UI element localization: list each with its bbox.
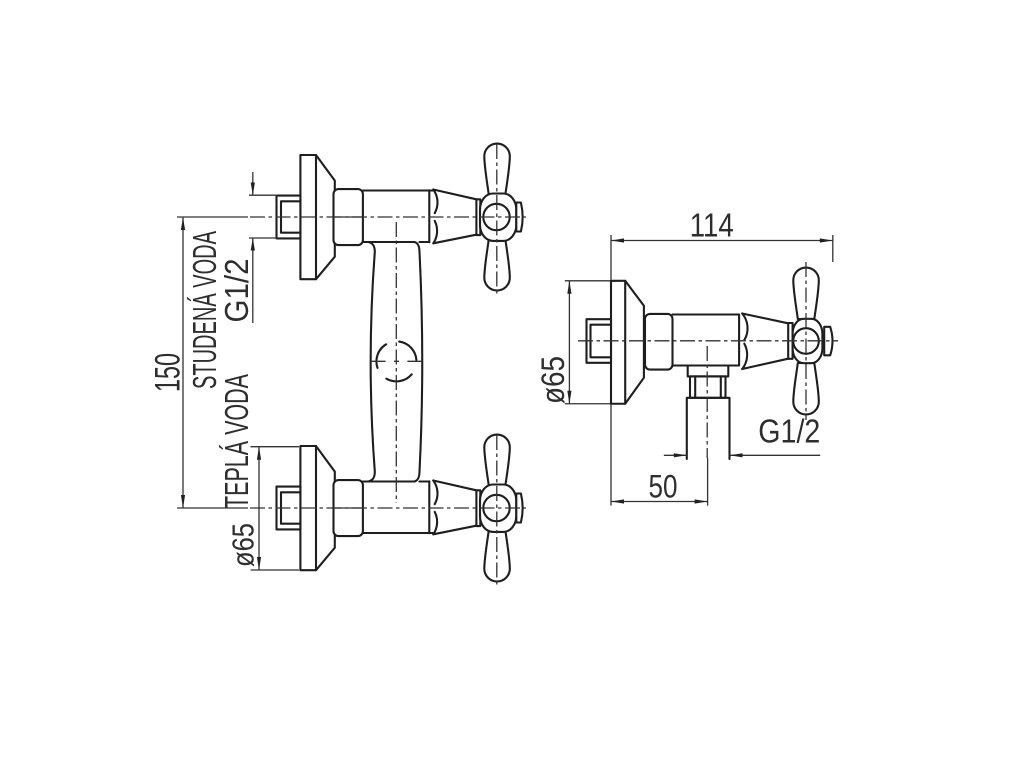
top valve group — [277, 144, 523, 291]
body circle horizontal centerline — [371, 360, 423, 362]
centerline top valve axis — [250, 216, 526, 218]
centerline solid across bottom nut — [334, 507, 364, 509]
svg-text:150: 150 — [149, 353, 188, 392]
hub cap side — [824, 327, 832, 356]
dimension 114 arrow right — [820, 238, 833, 242]
dimension dia65 arrow up — [257, 447, 261, 460]
handle blade up — [484, 144, 510, 195]
wall thread side — [587, 319, 612, 363]
outlet hex — [690, 376, 726, 397]
escutcheon flange — [300, 155, 334, 279]
dimension G1/2 side arrow right — [730, 453, 743, 457]
outlet pipe — [687, 398, 730, 459]
outlet hex chamfer lines — [695, 376, 721, 397]
svg-text:ø65: ø65 — [226, 523, 261, 567]
dimension 114 line — [611, 240, 833, 242]
dimension dia65 line — [258, 447, 260, 570]
dimension G1/2 arrow down — [251, 183, 255, 196]
dimension G1/2 side lines — [664, 454, 820, 456]
bonnet cone — [433, 190, 476, 244]
body tube left edge — [368, 242, 375, 482]
dimension dia65 arrow down — [257, 557, 261, 570]
dimension G1/2 arrow up — [251, 238, 255, 251]
bonnet collar side — [788, 323, 792, 359]
dimension 114 arrow left — [611, 238, 624, 242]
bonnet collar — [476, 199, 480, 235]
body tube right edge — [415, 242, 423, 482]
RIGHT VIEW — [535, 207, 838, 506]
thread core lines side — [591, 325, 612, 358]
svg-text:G1/2: G1/2 — [758, 413, 820, 450]
dimension dia65 side arrow up — [567, 281, 571, 294]
bottom valve arm edges — [363, 482, 433, 534]
bottom valve group — [277, 435, 523, 582]
centerline valve axis side — [578, 340, 838, 342]
dimension 50 arrow left — [611, 499, 624, 503]
dimension 114 extension line — [832, 235, 834, 262]
bonnet face edge — [428, 190, 430, 242]
wall mounting line — [610, 235, 612, 506]
dimension 150 line — [182, 217, 184, 508]
dimension 150 arrow down — [181, 495, 185, 508]
top valve arm edges — [363, 191, 433, 243]
valve body side — [673, 315, 740, 366]
svg-text:ø65: ø65 — [535, 356, 571, 404]
handle blade down — [484, 239, 510, 290]
dimension dia65 extension lines — [251, 447, 300, 570]
centerline bottom handle axis — [496, 435, 498, 588]
body center boss circle — [376, 342, 416, 382]
bonnet face edge side — [738, 315, 740, 365]
thread core lines — [281, 201, 300, 232]
svg-text:50: 50 — [649, 468, 678, 504]
dimension 150 extension lines — [177, 217, 248, 508]
dimension dia65 side extension lines — [565, 281, 610, 404]
dimension G1/2 side arrow left — [674, 453, 687, 457]
centerline handle axis side — [805, 262, 807, 420]
bonnet cone side — [742, 314, 788, 370]
centerline bottom valve axis — [250, 507, 526, 509]
svg-text:G1/2: G1/2 — [218, 259, 255, 323]
hub cap — [516, 203, 522, 232]
dimension dia65 side arrow down — [567, 391, 571, 404]
hex nut — [334, 189, 363, 245]
hex nut side — [645, 314, 673, 370]
svg-text:114: 114 — [690, 207, 734, 244]
dimension 50 line — [611, 501, 708, 503]
handle blade down side — [793, 363, 819, 414]
wall thread — [277, 196, 301, 239]
escutcheon flange side — [611, 281, 644, 404]
hub circle — [483, 204, 509, 230]
centerline tube axis — [395, 222, 397, 503]
handle hub — [480, 194, 516, 241]
bonnet rim arcs — [433, 190, 437, 244]
dimension dia65 side line — [568, 281, 570, 404]
handle blade up side — [793, 268, 819, 319]
dimension G1/2 extension lines — [249, 195, 277, 238]
centerline solid across top nut — [334, 216, 364, 218]
svg-text:TEPLÁ VODA: TEPLÁ VODA — [218, 374, 255, 509]
bonnet rim arcs side — [742, 314, 747, 370]
outlet collar — [688, 366, 729, 377]
centerline top handle axis — [496, 144, 498, 297]
dimension 50 arrow right — [695, 499, 708, 503]
dimension 150 arrow up — [181, 217, 185, 230]
escutcheon plate edge — [315, 155, 317, 279]
centerline outlet pipe — [706, 346, 708, 458]
handle hub side — [793, 319, 823, 363]
dimension G1/2 leader lines — [252, 172, 254, 323]
LEFT VIEW — [149, 144, 527, 588]
outlet pipe extension line — [707, 458, 709, 506]
hub circle side — [793, 328, 819, 354]
escutcheon plate edge side — [624, 281, 626, 404]
